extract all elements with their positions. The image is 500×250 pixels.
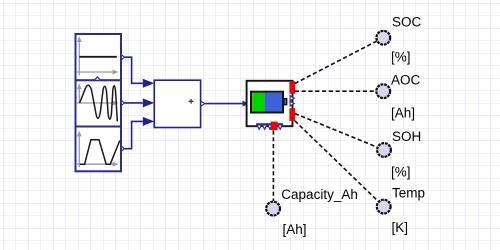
dashed connection to Capacity_Ah (272, 130, 274, 201)
bottom port 3 (268, 125, 273, 129)
svg-text:[Ah]: [Ah] (283, 222, 307, 237)
svg-text:Capacity_Ah: Capacity_Ah (281, 187, 358, 202)
input port 2 of sum1 (143, 98, 155, 107)
svg-text:SOH: SOH (392, 129, 421, 144)
svg-text:AOC: AOC (391, 73, 421, 88)
input port 3 of sum1 (143, 117, 155, 126)
wire trapezoid1 to sum1 (125, 121, 143, 148)
dashed connection to Temp (295, 121, 378, 202)
svg-text:SOC: SOC (392, 14, 422, 29)
output port of sine1 (121, 100, 124, 105)
bus connector (red, bottom) (271, 122, 278, 131)
start-time marker on sine1 top edge (94, 77, 100, 80)
wire sine1 to sum1 (125, 102, 143, 104)
output port I on battery right (290, 101, 294, 106)
svg-text:[%]: [%] (391, 50, 411, 65)
sum block sum1 (154, 80, 200, 127)
bottom port 2 (262, 125, 267, 129)
connector Capacity_Ah (266, 202, 280, 216)
source block table1 (constant profile) (76, 34, 122, 80)
output port of trapezoid1 (121, 146, 124, 151)
output port V on battery right (290, 96, 294, 101)
connector AOC (376, 84, 390, 98)
connector SOC (376, 31, 390, 45)
bottom port 4 (278, 125, 283, 129)
source block sine1 (cycle profile) (76, 80, 122, 126)
output port of table1 (121, 55, 124, 60)
wire table1 to sum1 (125, 57, 143, 83)
svg-text:[Ah]: [Ah] (391, 106, 415, 121)
dashed connection to SOH (295, 114, 377, 148)
bus connector (red, right bottom) (289, 108, 295, 121)
wire sum1 to battery (with arrow) (205, 103, 243, 105)
dashed connection to AOC (295, 90, 376, 92)
svg-text:[K]: [K] (392, 220, 409, 235)
connector SOH (377, 143, 391, 157)
battery cell icon (251, 92, 287, 113)
svg-text:Temp: Temp (392, 186, 425, 201)
input port 1 of sum1 (143, 79, 155, 88)
bottom port rail of battery1 (256, 123, 283, 125)
connector Temp (377, 200, 391, 214)
source block trapezoid1 (pulse profile) (76, 127, 122, 172)
bus connector (red, right top) (289, 81, 295, 94)
dashed connection to SOC (295, 41, 377, 83)
svg-text:[%]: [%] (391, 164, 411, 179)
battery block battery1 (247, 81, 293, 126)
output port of sum1 (201, 101, 205, 106)
bottom port 1 (257, 125, 262, 129)
